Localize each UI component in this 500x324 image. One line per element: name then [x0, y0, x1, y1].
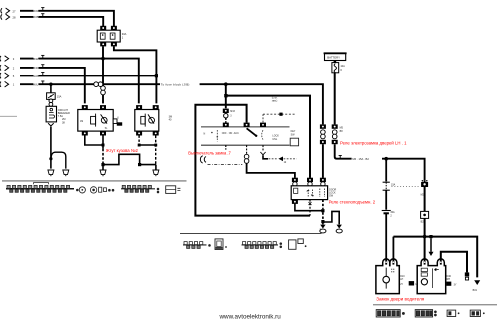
- svg-text:30A: 30A: [122, 32, 127, 36]
- node inline connector stack battery drop: [332, 124, 338, 128]
- wire wire4-drop to lock unit: [322, 144, 324, 178]
- node terminal down 2: [336, 225, 342, 233]
- node pin 3: [260, 123, 266, 127]
- svg-text:OFF · ON ·ACC: OFF · ON ·ACC: [222, 132, 239, 135]
- node connector on pin2 wire: [244, 154, 249, 163]
- svg-text:LH: LH: [400, 278, 403, 281]
- wire to actuator LH: [385, 213, 387, 259]
- relay U2 (door lock relay 2): [136, 105, 142, 109]
- node connector relay2 out: [153, 170, 159, 176]
- svg-text:M33: M33: [230, 111, 235, 113]
- svg-text:www.avtoelektronik.ru: www.avtoelektronik.ru: [219, 314, 282, 321]
- svg-text:RH: RH: [447, 278, 451, 281]
- wire bridge between relay outputs: [103, 154, 156, 164]
- wire battery feed down: [334, 73, 336, 125]
- node junction wire4 branch to circuit breaker: [49, 83, 52, 86]
- wire A-left pin down to relay: [102, 46, 104, 103]
- svg-text:12: 12: [284, 161, 287, 164]
- svg-text:1: 1: [13, 83, 15, 87]
- wire relay1 left pin down: [85, 136, 103, 146]
- connector face group M2: [90, 187, 114, 193]
- node junction wire4 / switch feed: [224, 82, 228, 86]
- node junction: [321, 209, 324, 212]
- connector face D4: [470, 310, 480, 316]
- fuse F2 10A: [332, 63, 339, 73]
- svg-text:2: 2: [390, 214, 392, 217]
- wire lock unit mid pin stub: [309, 200, 311, 216]
- connector face box B2: [215, 239, 223, 250]
- node connector end: [465, 272, 469, 276]
- connector face D1: [376, 310, 404, 317]
- fuse F3 inline: [383, 181, 390, 183]
- node connector chevron below breaker: [48, 123, 54, 126]
- node junction split: [49, 157, 52, 160]
- connector face strip B3: [242, 242, 282, 249]
- svg-text:Жгут кузова №2: Жгут кузова №2: [106, 148, 139, 153]
- wire actuator RH right pin loop: [441, 252, 467, 273]
- svg-text:6: 6: [117, 118, 119, 120]
- wire switch pin2 down: [246, 145, 248, 154]
- svg-text:UNL: UNL: [272, 138, 277, 141]
- svg-text:W/L: W/L: [33, 82, 38, 86]
- svg-text:зам.): зам.): [272, 100, 278, 103]
- wire 1 left: [20, 59, 139, 104]
- relay U1 (door lock relay 1): [82, 105, 88, 109]
- wire bus to actuators: [393, 237, 477, 278]
- node arrow in wire2: [0, 65, 9, 71]
- ground G1: [474, 280, 480, 285]
- connector legend separator right: [373, 304, 497, 306]
- svg-text:Реле электрозамка дверей LH .: Реле электрозамка дверей LH . 1: [340, 141, 407, 146]
- wire 3 left: [20, 75, 156, 77]
- svg-text:SW: SW: [291, 133, 296, 136]
- svg-text:B8: B8: [340, 130, 344, 133]
- wire relay2 left pin down: [138, 136, 140, 146]
- svg-text:Выключатель замка .7: Выключатель замка .7: [188, 150, 231, 155]
- node arrow in wire4: [0, 81, 9, 87]
- wire lock unit right pin down: [322, 200, 324, 209]
- connector face D2: [415, 310, 436, 317]
- svg-text:3: 3: [13, 57, 15, 61]
- connector face strip E101: [6, 183, 78, 193]
- wire battery drop corner right: [335, 144, 425, 181]
- svg-text:3: 3: [230, 115, 232, 117]
- svg-text:38: 38: [62, 121, 65, 124]
- svg-text:BATTERY: BATTERY: [327, 56, 340, 60]
- svg-text:To fuse block (J/B): To fuse block (J/B): [161, 83, 190, 87]
- node arrow feed 2 (top-left): [1, 14, 10, 20]
- wire top2: [20, 17, 103, 26]
- battery: [325, 53, 346, 60]
- svg-text:Замок двери водителя: Замок двери водителя: [376, 297, 425, 302]
- node connector bracket at box edge: [200, 156, 206, 163]
- node inline connector stack wire4 drop: [320, 124, 326, 128]
- wire 4 left (battery feed): [20, 83, 94, 85]
- node junction feed split: [384, 157, 388, 161]
- node junction arrow feed: [429, 235, 432, 238]
- node connector below fuse: [49, 99, 53, 103]
- svg-text:15A: 15A: [57, 95, 62, 99]
- connector face D3: [447, 310, 456, 316]
- svg-text:1M: 1M: [80, 121, 83, 123]
- svg-text:B/W: B/W: [33, 57, 39, 61]
- node junction relay1 pins: [102, 144, 105, 147]
- wire left branch down: [385, 159, 387, 182]
- svg-text:SW: SW: [329, 195, 334, 198]
- svg-text:Реле стеклоподъемн. 2: Реле стеклоподъемн. 2: [329, 200, 376, 205]
- svg-text:G/W: G/W: [33, 74, 39, 78]
- node dashed reference arrow right: [269, 158, 279, 160]
- node arrow in wire1: [0, 56, 9, 62]
- door lock-unlock switch unit: [292, 178, 298, 182]
- fuse F1 on breaker branch: [50, 84, 52, 93]
- svg-text:1: 1: [122, 35, 124, 39]
- wire jog to second terminal: [323, 211, 339, 224]
- node arrow feed 1 (top-left): [1, 8, 10, 14]
- svg-text:g: g: [340, 68, 342, 71]
- node pin 1: [223, 123, 229, 127]
- svg-text:28: 28: [13, 16, 16, 20]
- svg-text:W/B: W/B: [33, 15, 38, 19]
- node junction bridge left: [101, 163, 104, 166]
- node junction A-left / wire1: [101, 57, 105, 61]
- svg-text:40: 40: [169, 119, 172, 122]
- svg-text:B19: B19: [473, 289, 478, 292]
- circuit breaker B1: [50, 99, 52, 106]
- wire breaker down: [50, 127, 52, 169]
- node pin 2: [244, 123, 250, 127]
- connector legend separator middle: [180, 233, 322, 235]
- node connector relay1 out: [100, 170, 106, 176]
- connector face strip M3: [121, 185, 159, 193]
- node inline connector on wire4: [94, 82, 103, 87]
- relay U1 side pin: [113, 119, 117, 124]
- node junction at bus: [423, 235, 427, 239]
- door lock actuator RH: [417, 259, 446, 294]
- svg-text:2Y: 2Y: [400, 283, 403, 286]
- connector face box M4: [166, 186, 176, 194]
- wire continue: [385, 190, 387, 210]
- connector face strip B1: [183, 242, 210, 249]
- svg-text:M6 · 15A · B2: M6 · 15A · B2: [352, 157, 369, 161]
- fuse F4 inline: [382, 210, 391, 212]
- wire relay2 right pin down: [155, 136, 157, 165]
- node connector chevron pin3: [260, 152, 265, 155]
- svg-text:27: 27: [13, 9, 16, 13]
- wire loop left segment: [195, 105, 310, 216]
- node junction bridge right: [138, 163, 141, 166]
- node dashed reference line left: [208, 163, 243, 165]
- connector face box B4: [289, 240, 296, 249]
- node arrow in wire3: [0, 73, 9, 79]
- wire 4 continuation with fuse block label: [103, 84, 323, 124]
- node dotted tie line: [392, 186, 419, 188]
- node terminal down 1: [320, 225, 326, 233]
- wire pin2 to lock unit: [247, 163, 295, 178]
- svg-text:5: 5: [13, 74, 15, 78]
- connector legend separator left: [2, 180, 187, 182]
- wire lock unit left pin down: [292, 200, 298, 204]
- wire top1: [20, 11, 114, 26]
- node junction 2: [321, 220, 324, 223]
- node connector M2: [421, 182, 428, 187]
- node connector B2: [421, 211, 429, 218]
- wire right branch down: [424, 181, 426, 237]
- ground/left margin line: [0, 115, 17, 117]
- node connector on A-left wire: [101, 86, 106, 95]
- wire relay1 right pin down: [102, 136, 104, 149]
- node connector to body harness 2: [63, 170, 69, 176]
- node connector on key switch feed: [223, 109, 229, 113]
- key switch assembly lines: [201, 126, 290, 128]
- svg-text:3Y: 3Y: [454, 283, 457, 286]
- svg-text:W/R: W/R: [33, 9, 38, 13]
- connector face circle M1: [79, 187, 85, 193]
- node connector to body harness 1: [48, 170, 54, 176]
- svg-text:N: N: [204, 133, 206, 136]
- wire split hump to second connector: [51, 152, 66, 168]
- node junction wire3 / A-right drop: [155, 74, 158, 77]
- svg-text:B/R: B/R: [33, 66, 38, 70]
- svg-text:2: 2: [13, 66, 15, 70]
- circuit breaker block A: [100, 26, 106, 30]
- wire 2 left: [20, 68, 85, 104]
- wire switch pin3 down: [262, 145, 264, 151]
- wire A-right pin to relay D right pin: [114, 46, 156, 103]
- wire switch out stub: [225, 145, 227, 149]
- wire main feed loop (thick): [224, 94, 227, 97]
- dashed link to feed: [263, 113, 296, 115]
- switch lever: [247, 128, 257, 136]
- door lock actuator LH: [376, 259, 399, 294]
